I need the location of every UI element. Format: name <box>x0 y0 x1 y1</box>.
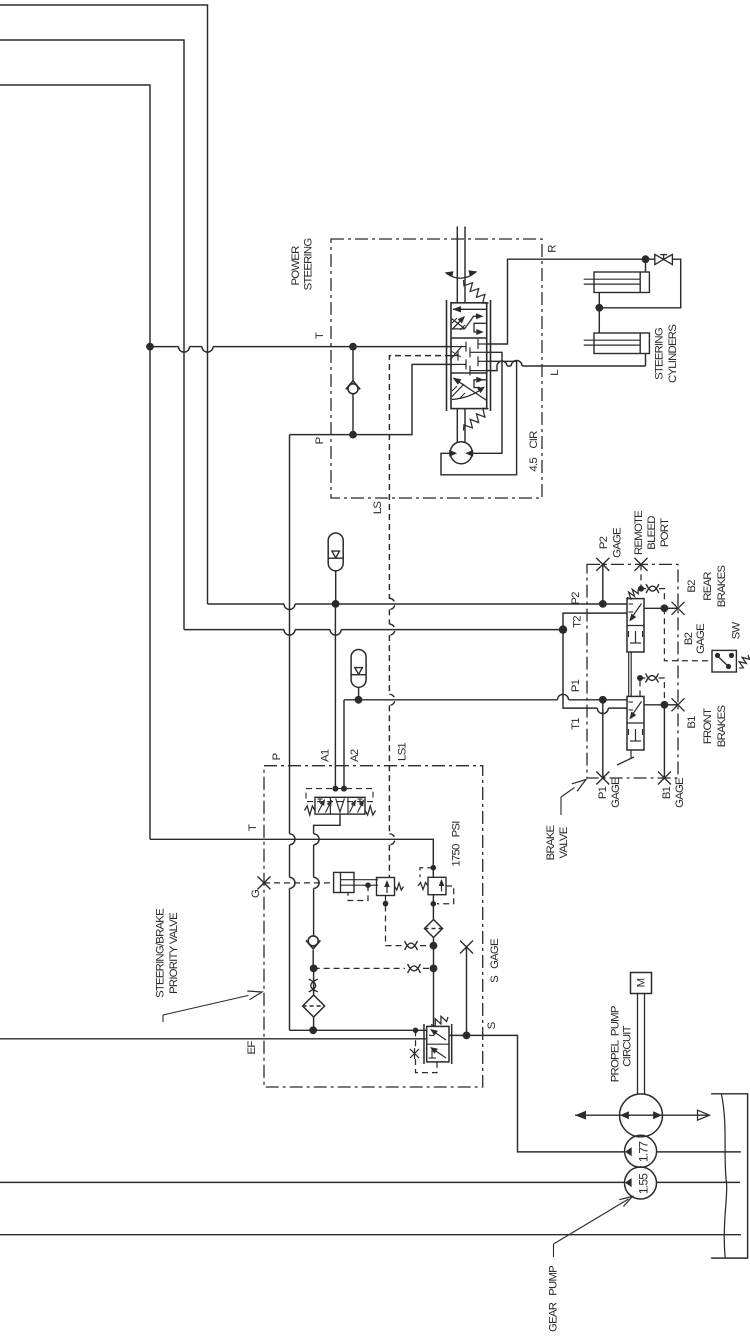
front brake valve flow arrow <box>630 702 642 719</box>
accumulator ACC2 <box>351 650 366 688</box>
node R line tee to cylinder <box>642 255 650 263</box>
svg-text:S GAGE: S GAGE <box>489 938 501 983</box>
relief valve pilot loop (dashed) <box>437 886 454 904</box>
svg-text:1.55: 1.55 <box>637 1173 651 1194</box>
wire B1 port stub <box>644 704 664 706</box>
node cylinder link tee <box>595 304 603 312</box>
svg-text:FRONT: FRONT <box>702 708 714 744</box>
svg-text:EF: EF <box>246 1041 258 1055</box>
svg-text:A1: A1 <box>320 749 332 762</box>
drain orifice <box>309 979 316 992</box>
svg-text:CYLINDERS: CYLINDERS <box>667 324 679 383</box>
wire P1 gage riser <box>602 700 604 778</box>
steering wheel rotation arrow <box>446 272 476 278</box>
svg-text:REMOTE: REMOTE <box>633 510 645 555</box>
wire feed line 2 (middle, to T2) <box>0 40 184 630</box>
steering control valve spool body <box>451 303 487 409</box>
pressure filter <box>425 920 443 938</box>
svg-text:LS1: LS1 <box>397 743 409 761</box>
modulating valve spring left <box>305 806 316 815</box>
wire cylinder 1 ports <box>645 259 647 272</box>
pressure switch SW box <box>712 650 736 672</box>
reservoir break squiggle <box>721 1094 726 1258</box>
steering column <box>456 227 458 304</box>
gage port X G <box>258 876 271 889</box>
svg-text:STEERING: STEERING <box>303 238 315 291</box>
svg-text:T: T <box>314 332 326 339</box>
priority spool symbols <box>432 1030 447 1040</box>
svg-text:PORT: PORT <box>659 518 671 547</box>
charge valve body <box>377 878 395 896</box>
wire T drain line <box>150 839 433 877</box>
relief valve spring <box>418 883 428 890</box>
relief valve 1750 PSI pilot top <box>431 865 437 871</box>
node ACC1 tee on P2 <box>332 600 340 608</box>
node check valve tee on T line <box>349 343 357 351</box>
wire S line <box>449 1035 625 1152</box>
rear brake valve blocked ports <box>635 631 637 643</box>
charge cylinder pilot (dashed) <box>348 885 368 900</box>
front brake valve body <box>627 696 644 750</box>
svg-text:GAGE: GAGE <box>695 623 707 654</box>
pressure switch spring <box>739 655 749 668</box>
svg-text:B2: B2 <box>683 632 695 645</box>
svg-text:T1: T1 <box>570 718 582 730</box>
priority spool rails <box>423 1024 425 1064</box>
svg-text:A2: A2 <box>349 749 361 762</box>
wire P2 gage riser <box>602 564 604 604</box>
front brake pilot (dashed) <box>639 678 641 696</box>
charge valve drain pilot (dashed) <box>385 896 387 946</box>
gage port X P1 GAGE <box>596 772 609 785</box>
priority valve enclosure (dash-dot box) <box>264 766 483 1087</box>
node pilot tee 2 <box>430 965 438 973</box>
wire remote bleed pilot (dashed) <box>640 564 642 588</box>
svg-text:GAGE: GAGE <box>674 777 686 808</box>
svg-text:REAR: REAR <box>702 572 714 601</box>
rear brake valve body <box>627 599 644 652</box>
svg-text:STEERING: STEERING <box>654 327 666 380</box>
gage port X REMOTE BLEED PORT <box>635 558 648 571</box>
check valve CV1 (T to P) <box>352 347 354 381</box>
node spool pilot tap <box>413 1028 419 1034</box>
brake valve callout leader <box>572 780 586 792</box>
svg-text:P: P <box>314 437 326 444</box>
gear pump stage 1.77 <box>625 1135 657 1167</box>
svg-text:1.77: 1.77 <box>637 1141 651 1162</box>
svg-text:G: G <box>250 889 262 898</box>
spool section 1 flow symbols <box>453 308 486 310</box>
wire T2 feed line <box>184 629 284 631</box>
wire G gage line (dashed) <box>264 882 334 884</box>
spool section 3 flow symbols <box>454 379 486 401</box>
svg-text:PRIORITY VALVE: PRIORITY VALVE <box>168 912 180 994</box>
node LS1 drain tee <box>430 942 438 950</box>
bleed valve on R line (bowtie) <box>655 254 664 264</box>
svg-text:P2: P2 <box>598 536 610 549</box>
wire tank return line <box>0 1234 741 1236</box>
gage port X B1 GAGE <box>658 772 671 785</box>
node A2 at valve <box>341 786 347 792</box>
node T2 junction <box>559 625 567 633</box>
drain check valve <box>308 936 318 946</box>
wire P2 feed line <box>208 603 285 605</box>
svg-text:LS: LS <box>372 501 384 515</box>
wire feed line 1 (outer, to P2) <box>0 5 208 604</box>
wire B1 gage riser <box>663 705 665 778</box>
centering spring upper <box>464 280 489 303</box>
svg-text:B1: B1 <box>661 786 673 799</box>
svg-text:P2: P2 <box>570 592 582 605</box>
node CF junction <box>309 1026 317 1034</box>
charge cylinder rod <box>341 879 379 881</box>
wire CF line to spool <box>290 1029 427 1031</box>
svg-text:S: S <box>486 1021 498 1029</box>
priority spool spring <box>431 1016 448 1026</box>
relief valve 1750 PSI body <box>428 877 446 894</box>
rear brake valve spring <box>627 589 638 599</box>
wire P line of steering unit <box>290 364 452 434</box>
brake valve interstage link <box>628 652 630 696</box>
wire R line <box>487 259 642 344</box>
gear pump stage 1.55 <box>625 1167 657 1199</box>
charge cylinder body <box>334 872 354 892</box>
wire R return to rod side <box>599 259 680 308</box>
wire EF line <box>0 1038 427 1040</box>
reservoir bracket <box>711 1094 748 1258</box>
front brake valve pedal <box>630 750 632 758</box>
wire LS pilot line (dashed) <box>389 356 451 599</box>
svg-text:CIRCUIT: CIRCUIT <box>621 1025 633 1066</box>
node P2 gage tee <box>599 600 607 608</box>
pump drive shaft <box>637 994 639 1095</box>
wire L line <box>487 366 497 371</box>
svg-text:GEAR PUMP: GEAR PUMP <box>548 1266 560 1332</box>
svg-text:P1: P1 <box>570 679 582 692</box>
wire T line of steering unit <box>150 346 179 348</box>
brake modulating valve dashed housing <box>306 789 373 802</box>
node drain pilot tee <box>310 965 318 973</box>
power steering enclosure (dash-dot box) <box>331 239 542 498</box>
brake valve enclosure (dash-dot box) <box>587 564 678 778</box>
svg-text:GAGE: GAGE <box>612 527 624 558</box>
svg-text:STEERING/BRAKE: STEERING/BRAKE <box>155 908 167 998</box>
wire pressure drop to spool <box>432 895 434 920</box>
gerotor metering section 4.5 CIR <box>456 409 458 442</box>
node B2 tee <box>661 604 669 612</box>
wire pump suction 1 <box>657 1151 741 1153</box>
node relief pilot tee <box>431 901 437 907</box>
priority spool pilot (dashed) <box>415 1030 417 1048</box>
steering cylinder 1 body <box>594 272 649 293</box>
svg-text:P: P <box>271 753 283 760</box>
centering spring lower <box>464 408 489 430</box>
svg-text:BRAKE: BRAKE <box>545 824 557 860</box>
svg-text:POWER: POWER <box>290 246 302 286</box>
wire gerotor loop A <box>472 352 502 453</box>
svg-text:VALVE: VALVE <box>558 826 570 858</box>
node P1 gage tee <box>599 696 607 704</box>
node B1 tee <box>661 701 669 709</box>
wire P riser <box>289 435 291 834</box>
svg-text:SW: SW <box>731 622 743 640</box>
modulating valve spring right <box>365 806 376 815</box>
svg-text:R: R <box>547 245 559 253</box>
motor box M <box>631 973 652 994</box>
svg-text:PROPEL PUMP: PROPEL PUMP <box>609 1006 621 1082</box>
wire S gage riser <box>466 947 468 1035</box>
svg-text:BLEED: BLEED <box>646 516 658 550</box>
wire drain to CF <box>313 1017 315 1030</box>
node rod pilot <box>365 882 371 888</box>
svg-text:B1: B1 <box>686 716 698 729</box>
spool side rails <box>446 300 448 411</box>
drain pilot orifice (dashed) <box>408 964 421 971</box>
propel pump circle <box>620 1094 663 1137</box>
wire P1 feed line <box>344 699 558 701</box>
svg-text:M: M <box>636 978 648 987</box>
brake modulating valve body <box>315 797 365 814</box>
drain filter <box>303 995 325 1017</box>
wire modulating valve drain <box>314 814 340 834</box>
wire feed line 3 (inner, T supply) <box>0 85 150 839</box>
front brake valve blocked ports <box>635 729 637 741</box>
svg-text:L: L <box>549 370 561 376</box>
wire P2 port stub <box>644 607 664 609</box>
node T junction on supply <box>146 343 154 351</box>
accumulator ACC1 <box>328 533 343 571</box>
wire B2 gage pilot (dashed) <box>664 608 712 661</box>
svg-text:P1: P1 <box>597 786 609 799</box>
wire T2 port line <box>563 613 627 626</box>
svg-text:BRAKES: BRAKES <box>716 705 728 748</box>
label GEAR PUMP leader <box>553 1244 555 1257</box>
wire pump suction 2 <box>0 1181 625 1183</box>
cylinder 2 rod <box>584 339 641 341</box>
modulating valve symbols <box>318 798 323 800</box>
gage port X B2 <box>672 602 685 615</box>
spool section 2 port bars <box>451 346 466 348</box>
steering cylinder 2 body <box>594 333 649 354</box>
svg-text:BRAKES: BRAKES <box>716 565 728 608</box>
gage port X S GAGE <box>460 941 473 954</box>
cylinder 1 rod <box>584 278 641 280</box>
svg-text:4.5 CIR: 4.5 CIR <box>528 431 540 472</box>
node A1 at valve <box>332 786 338 792</box>
priority spool body <box>427 1026 449 1062</box>
svg-text:GAGE: GAGE <box>610 777 622 808</box>
priority valve callout leader <box>247 991 262 1000</box>
propel pump flow arrows <box>575 1114 710 1116</box>
svg-text:1750 PSI: 1750 PSI <box>451 821 463 867</box>
node S gage tee <box>463 1032 471 1040</box>
wire T2-T1 drop <box>563 633 597 708</box>
wire cylinder 2 ports <box>598 308 600 333</box>
wire gerotor loop B <box>441 361 517 475</box>
wire A1 riser <box>334 604 336 789</box>
svg-text:T2: T2 <box>572 616 584 628</box>
gage port X B1 <box>672 698 685 711</box>
svg-text:B2: B2 <box>686 580 698 593</box>
rear brake valve flow arrow <box>630 604 642 621</box>
gage port X P2 GAGE <box>596 558 609 571</box>
svg-text:T: T <box>247 824 259 831</box>
orifice on LS1 drain <box>405 941 418 948</box>
node ACC2 tee on P1 <box>355 696 363 704</box>
charge valve spring <box>395 883 404 890</box>
wire A2 riser <box>343 700 345 789</box>
node P junction <box>349 431 357 439</box>
